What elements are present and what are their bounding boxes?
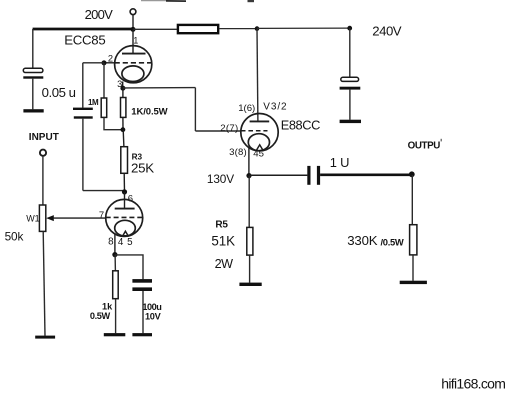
anode plate V1b <box>115 208 135 210</box>
heater caret V1b <box>122 231 128 236</box>
wire node2 left <box>83 62 104 64</box>
resistor 1k <box>113 271 119 299</box>
ground R5 <box>239 283 261 286</box>
resistor 330K <box>410 225 417 255</box>
wire junction to R5 <box>248 176 250 228</box>
resistor anode load (horizontal) <box>178 25 218 33</box>
svg-text:2: 2 <box>108 53 113 63</box>
capacitor 100u bottom plate <box>132 287 152 291</box>
ground 100u <box>132 333 152 336</box>
wire down to E88CC grid level <box>194 88 196 131</box>
cathode V1b <box>115 220 136 236</box>
svg-text:OUTPU: OUTPU <box>408 140 441 151</box>
svg-text:240V: 240V <box>372 24 402 39</box>
capacitor 240V filter top plate <box>341 77 359 81</box>
wire potentiometer to ground <box>43 231 45 335</box>
feedback capacitor bottom plate <box>74 116 93 118</box>
wire grid to node 2 <box>104 62 115 64</box>
svg-text:5: 5 <box>127 237 133 248</box>
wire cap to output node (thick) <box>320 174 412 177</box>
svg-text:V3/2: V3/2 <box>263 102 287 113</box>
ground 330K <box>400 281 427 284</box>
svg-text:/0.5W: /0.5W <box>381 236 404 247</box>
wire 330K to ground <box>412 255 414 281</box>
anode plate E88CC <box>250 120 270 122</box>
tube V1b ECC85 envelope <box>106 199 143 236</box>
svg-text:hifi168.com: hifi168.com <box>441 375 505 391</box>
svg-text:2(7): 2(7) <box>220 123 238 134</box>
svg-text:2W: 2W <box>215 257 234 271</box>
resistor R5 <box>247 227 253 255</box>
wire rail to 0.05u cap <box>32 29 34 69</box>
capacitor 1U left plate <box>307 166 310 185</box>
scan artifact top edge <box>141 0 254 2</box>
svg-text:0.05 u: 0.05 u <box>42 85 76 100</box>
output node junction <box>409 171 415 177</box>
svg-text:R5: R5 <box>215 220 228 231</box>
terminal input <box>40 150 46 156</box>
node 2 junction <box>102 60 107 65</box>
wire 100u to ground <box>142 291 144 333</box>
resistor R3 <box>121 147 128 174</box>
wire 1K bottom <box>122 117 124 129</box>
capacitor 240V filter bottom plate <box>340 87 361 90</box>
anode plate V1a <box>122 53 146 55</box>
wire node3 right <box>123 87 195 89</box>
svg-text:130V: 130V <box>207 172 234 186</box>
wire R3 to node 6 <box>123 173 125 192</box>
wire R5 to ground <box>249 255 251 283</box>
svg-text:1: 1 <box>133 35 138 45</box>
svg-text:1(6): 1(6) <box>238 103 255 114</box>
svg-text:7: 7 <box>99 210 104 221</box>
cathode E88CC <box>248 134 269 151</box>
svg-text:1M: 1M <box>88 98 99 107</box>
svg-text:3(8): 3(8) <box>229 147 247 158</box>
grid E88CC (dashed) <box>241 130 268 132</box>
wire E88CC anode feed <box>256 29 259 122</box>
wire junction to R3 <box>122 130 125 147</box>
capacitor 100u top plate <box>132 279 152 283</box>
junction cathode/output <box>246 173 251 178</box>
wire 1M bottom <box>104 117 123 129</box>
junction 240V <box>347 26 352 31</box>
wire to E88CC grid <box>195 130 241 132</box>
wire junction to 1k <box>114 255 116 271</box>
junction cathode V1b <box>112 252 117 257</box>
resistor 1M <box>101 98 107 117</box>
svg-text:8: 8 <box>108 236 114 247</box>
wire wiper to grid V1b <box>53 217 106 219</box>
cathode lead V1b <box>114 234 116 255</box>
capacitor 0.05u top plate <box>23 68 43 72</box>
ground 1k <box>104 333 126 336</box>
svg-text:45: 45 <box>253 149 264 160</box>
wire junction to coupling cap <box>249 174 307 176</box>
wire output node to 330K <box>411 175 413 225</box>
wire down to feedback cap <box>82 63 84 108</box>
wire cap to corner <box>82 119 84 191</box>
junction rail/terminal <box>131 27 136 32</box>
anode lead V1b <box>124 192 126 208</box>
svg-text:0.5W: 0.5W <box>90 311 111 321</box>
wiper arrow W1 <box>46 215 54 221</box>
wire 0.05u cap to ground <box>32 79 34 110</box>
svg-text:1 U: 1 U <box>330 155 349 170</box>
svg-text:1K/0.5W: 1K/0.5W <box>131 107 167 118</box>
feedback capacitor top plate <box>73 108 93 110</box>
node 3 junction <box>120 86 125 91</box>
tube U2 E88CC envelope <box>241 114 278 151</box>
wire node2 to 1M <box>103 63 105 98</box>
junction E88CC anode feed <box>255 26 260 31</box>
svg-text:1k: 1k <box>102 302 113 312</box>
wire resistor to node <box>219 28 257 30</box>
heater caret E88CC <box>256 145 263 151</box>
label OUTPUT <box>408 139 442 152</box>
wire 240V node to filter cap <box>349 28 351 77</box>
svg-text:4: 4 <box>118 237 124 248</box>
svg-text:10V: 10V <box>145 312 162 322</box>
capacitor 0.05u bottom plate <box>23 76 43 78</box>
svg-text:3: 3 <box>117 79 122 89</box>
potentiometer W1 body <box>39 205 45 231</box>
svg-text:25K: 25K <box>131 160 154 175</box>
svg-text:200V: 200V <box>85 7 114 22</box>
wire 1k to ground <box>115 299 117 334</box>
svg-text:INPUT: INPUT <box>29 132 59 143</box>
grid V1b (dashed) <box>106 216 143 218</box>
wire corner to node 6 <box>83 190 125 192</box>
svg-text:100u: 100u <box>142 302 161 312</box>
capacitor 1U right plate <box>317 166 320 185</box>
anode wire V1a <box>132 29 134 53</box>
ground W1 <box>35 336 55 339</box>
wire node3 to 1K <box>122 88 124 97</box>
svg-text:E88CC: E88CC <box>281 118 320 133</box>
node 6 junction <box>122 189 127 194</box>
svg-text:W1: W1 <box>26 213 40 223</box>
cathode V1a <box>122 66 144 82</box>
tube V1a ECC85 envelope <box>115 46 152 83</box>
terminal 200V <box>130 9 136 15</box>
ground 240V cap <box>340 120 361 123</box>
svg-text:50k: 50k <box>5 229 24 243</box>
wire filter cap to ground <box>349 90 351 120</box>
resistor 1K/0.5W <box>121 98 126 118</box>
wire node to 240V node <box>257 27 350 29</box>
svg-text:51K: 51K <box>211 234 235 249</box>
wire junction to 100u <box>115 255 143 279</box>
wire terminal to rail <box>132 15 134 29</box>
wire input to potentiometer <box>42 156 44 205</box>
grid V1a (dashed) <box>115 62 152 64</box>
svg-text:ECC85: ECC85 <box>64 33 105 48</box>
cathode lead E88CC <box>248 147 250 175</box>
wire rail to anode resistor <box>133 28 177 30</box>
ground 0.05u <box>23 109 43 112</box>
B+ 200V rail (thick) <box>33 28 133 31</box>
junction 1K/1M/R3 <box>121 127 126 132</box>
svg-text:330K: 330K <box>347 233 377 248</box>
cathode lead V1a <box>122 82 124 89</box>
